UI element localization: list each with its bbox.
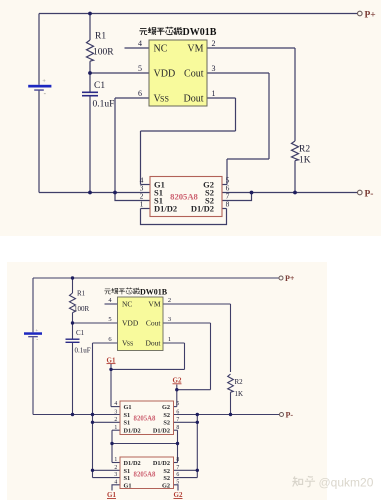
svg-text:SS: SS [127, 342, 134, 348]
svg-text:5: 5 [176, 401, 179, 407]
resistor R1 body B [70, 293, 76, 313]
svg-text:3: 3 [114, 409, 117, 415]
pin 5 G2 stub QA [174, 406, 177, 408]
svg-text:S1: S1 [124, 420, 131, 427]
svg-text:G2: G2 [162, 404, 170, 411]
svg-text:8: 8 [176, 425, 179, 431]
svg-text:0.1uF: 0.1uF [75, 347, 91, 355]
wire Dout down to G1 pin4 [140, 131, 142, 185]
svg-text:VDD: VDD [122, 319, 139, 328]
wire G2 net label drop [176, 385, 178, 407]
U2 pin names [154, 180, 214, 214]
svg-text:2: 2 [212, 39, 216, 48]
top schematic cream background [0, 0, 381, 236]
svg-text:2: 2 [114, 417, 117, 423]
wire R1 top lead [89, 14, 91, 41]
node R1/C1/VDD junction [88, 71, 92, 75]
pin 8 D1/D2 stub QB [174, 462, 178, 464]
wire C1 bottom lead B [72, 343, 74, 415]
svg-text:P+: P+ [365, 10, 376, 20]
svg-text:3: 3 [212, 64, 216, 73]
pin 5 G2 stub U2 [222, 184, 227, 186]
svg-text:G1: G1 [107, 491, 116, 499]
wire S2 riser B [196, 415, 198, 478]
node S2 riser junction [250, 191, 254, 195]
watermark 知乎 @qukm20 [292, 476, 315, 486]
wire R2 top lead B [230, 304, 232, 372]
svg-text:6: 6 [176, 409, 179, 415]
pin 6 Vss stub B [93, 342, 118, 344]
svg-text:4: 4 [138, 39, 142, 48]
svg-text:SS: SS [160, 95, 169, 104]
node QB pin2 branch [91, 469, 94, 472]
svg-text:D1/D2: D1/D2 [191, 204, 214, 214]
wire to second S1 pin 2 [115, 193, 150, 201]
U1 pin names [154, 44, 204, 105]
wire Dout pin1 B [163, 342, 185, 344]
wire R1/C1 junction to VDD pin5 [90, 72, 149, 74]
svg-text:R2: R2 [235, 378, 244, 386]
wire Cout down B [210, 323, 212, 390]
net label G1 upper underline [107, 363, 116, 365]
pin 7 S2 stub and riser [222, 193, 252, 201]
wire battery bottom lead [38, 91, 40, 193]
svg-text:D1/D2: D1/D2 [154, 204, 177, 214]
pin 1 D1/D2 stub U2 [141, 208, 151, 210]
svg-text:D1/D2: D1/D2 [124, 460, 141, 467]
wire R1 bottom lead [89, 61, 91, 73]
bottom schematic cream background [7, 262, 327, 500]
wire battery bottom lead B [32, 337, 34, 414]
pin 5 G2 stub QB [174, 485, 179, 491]
svg-text:G1: G1 [124, 404, 132, 411]
wire R2 bottom lead [294, 161, 296, 193]
pin 1 D1/D2 stub QA [112, 429, 120, 431]
svg-text:NC: NC [122, 300, 132, 309]
svg-text:-: - [36, 337, 38, 343]
junction dots bottom [71, 276, 232, 472]
svg-text:0.1uF: 0.1uF [93, 100, 115, 110]
port P- bottom [280, 413, 284, 417]
svg-text:4: 4 [114, 479, 117, 485]
pin 8 D1/D2 stub QA [174, 429, 178, 431]
QA pin numbers [114, 401, 179, 431]
svg-text:Cout: Cout [146, 319, 162, 328]
svg-text:D1/D2: D1/D2 [153, 460, 170, 467]
svg-text:S2: S2 [163, 468, 170, 475]
svg-text:+: + [42, 78, 46, 85]
svg-text:3: 3 [168, 316, 171, 323]
svg-text:8205A8: 8205A8 [134, 472, 157, 479]
svg-text:DW01B: DW01B [183, 27, 217, 38]
wire P+ rail bottom [33, 277, 279, 279]
svg-text:D1/D2: D1/D2 [124, 428, 141, 435]
wire P+ rail top [39, 13, 357, 15]
svg-text:3: 3 [114, 472, 117, 478]
port P+ top [358, 11, 363, 16]
wire Dout down B [184, 343, 186, 369]
label U1 title 无锡平芯微DW01B [139, 27, 182, 35]
wire battery- to S1 rail B [33, 414, 120, 416]
pin 4 G1 stub QA [111, 406, 120, 408]
svg-text:1: 1 [114, 457, 117, 463]
wire battery top lead [38, 14, 40, 85]
svg-text:S2: S2 [163, 412, 170, 419]
svg-text:Cout: Cout [184, 69, 204, 80]
svg-text:1: 1 [168, 336, 171, 343]
label U1 title B 无锡平芯微DW01B [104, 288, 139, 295]
svg-text:VM: VM [187, 44, 203, 55]
wire R1 top lead B [72, 278, 74, 293]
battery BT1 B [24, 328, 42, 343]
pin 8 D1/D2 stub U2 [222, 208, 227, 210]
net label G1 lower underline [107, 498, 116, 500]
svg-text:S2: S2 [163, 475, 170, 482]
wire Cout down [268, 73, 270, 159]
node D bridge left [110, 442, 113, 445]
QB pin names [124, 460, 171, 489]
wire Dout pin1 [207, 97, 236, 99]
pin 4 G1 stub QB [112, 485, 120, 491]
wire battery top lead B [32, 278, 34, 332]
pin 1 D1/D2 stub QB [112, 462, 120, 464]
svg-text:8: 8 [226, 200, 230, 209]
wire R1 bottom lead B [72, 313, 74, 323]
node R1/C1/VDD junction B [71, 321, 74, 324]
svg-text:G1: G1 [124, 482, 132, 489]
node D bridge right [176, 442, 179, 445]
svg-text:1: 1 [140, 200, 144, 209]
svg-text:P+: P+ [285, 274, 295, 283]
svg-text:S1: S1 [124, 468, 131, 475]
pin 7 S2 stub QA [174, 421, 198, 423]
U1 pin numbers [138, 39, 216, 98]
svg-text:1K: 1K [235, 390, 244, 398]
wire D1/D2 bottom loop [141, 209, 227, 225]
svg-text:5: 5 [138, 64, 142, 73]
resistor R1 label B [74, 290, 243, 399]
QB pin numbers [114, 457, 179, 485]
wire Dout across B [111, 368, 185, 370]
wire R2 bottom lead B [230, 392, 232, 414]
port P- top [358, 190, 363, 195]
node R2 bottom junction B [229, 413, 232, 416]
svg-text:S1: S1 [124, 475, 131, 482]
svg-text:S2: S2 [163, 420, 170, 427]
svg-text:1K: 1K [299, 156, 311, 166]
node C1 bottom junction B [71, 413, 74, 416]
node R1 top junction B [71, 276, 74, 279]
svg-text:P-: P- [286, 411, 294, 420]
resistor R1 label [93, 32, 311, 166]
svg-text:R1: R1 [77, 290, 86, 298]
node QB pin7 junction B [196, 469, 199, 472]
capacitor C1 [82, 92, 98, 97]
svg-text:G2: G2 [162, 482, 170, 489]
wire branch to QA pin2 [93, 421, 121, 423]
svg-text:+: + [35, 328, 38, 334]
node S2 riser top B [196, 413, 199, 416]
svg-text:VM: VM [148, 300, 160, 309]
node R2 bottom junction [293, 191, 297, 195]
wire Cout across B [177, 389, 211, 391]
wire Cout pin3 [207, 72, 269, 74]
junction dots top [88, 12, 297, 195]
wire S2 rail to P- [222, 192, 357, 194]
wire branch to QB pin3 [93, 477, 121, 479]
wire D left riser A-B [111, 430, 113, 462]
svg-text:8205A8: 8205A8 [170, 192, 198, 202]
node Vss rail junction [113, 191, 117, 195]
capacitor C1 B [66, 339, 80, 344]
U1 pin numbers B [108, 297, 171, 343]
net label G2 upper underline [173, 383, 182, 385]
svg-text:D1/D2: D1/D2 [153, 428, 170, 435]
svg-text:100R: 100R [74, 305, 90, 313]
svg-text:5: 5 [108, 316, 111, 323]
resistor R1 body [87, 40, 94, 61]
wire C1 bottom lead [89, 97, 91, 193]
IC U1 DW01B body B [118, 297, 164, 351]
IC U2 8205A8 body [150, 177, 222, 217]
wire C1 top lead B [72, 323, 74, 339]
svg-text:S1: S1 [124, 412, 131, 419]
net label G1 upper [107, 356, 183, 499]
node QA pin2 branch [91, 421, 94, 424]
wire battery- to S1 rail [39, 192, 150, 194]
svg-text:1: 1 [114, 425, 117, 431]
wire R2 top lead [294, 48, 296, 141]
svg-text:R2: R2 [299, 145, 310, 155]
svg-text:DW01B: DW01B [140, 287, 168, 296]
pin 4 NC stub [125, 47, 150, 49]
svg-text:5: 5 [176, 479, 179, 485]
node Vss rail junction B [91, 413, 94, 416]
wire branch to QB pin2 [93, 469, 121, 471]
svg-text:7: 7 [176, 465, 179, 471]
wire Vss down to S1 rail [114, 98, 116, 193]
wire D bridge [112, 443, 178, 445]
wire Cout down to G2 pin5 [226, 159, 228, 185]
svg-text:P-: P- [365, 189, 374, 199]
pin 4 G1 stub U2 [141, 184, 151, 186]
U1 pin names B [122, 300, 161, 348]
svg-text:R1: R1 [95, 32, 106, 42]
svg-text:NC: NC [154, 44, 168, 55]
node C1 bottom junction [88, 191, 92, 195]
node Dout/G1 junction B [109, 368, 112, 371]
IC QA 8205A8 body [120, 401, 174, 435]
svg-text:6: 6 [176, 472, 179, 478]
node R1 top junction [88, 12, 92, 16]
svg-text:7: 7 [176, 417, 179, 423]
svg-text:2: 2 [114, 465, 117, 471]
svg-text:C1: C1 [94, 81, 105, 91]
svg-text:2: 2 [168, 297, 171, 304]
IC QB 8205A8 body [120, 457, 174, 489]
svg-text:8205A8: 8205A8 [134, 416, 157, 423]
svg-text:Dout: Dout [146, 339, 162, 348]
pin 7 S2 stub QB [174, 469, 198, 471]
wire Dout down [235, 98, 237, 131]
pin 4 NC stub B [105, 303, 118, 305]
wire S2 rail to P- B [174, 414, 280, 416]
svg-text:C1: C1 [76, 329, 85, 337]
svg-text:4: 4 [114, 401, 117, 407]
wire VM pin2 B [163, 303, 231, 305]
svg-text:1: 1 [212, 89, 216, 98]
svg-text:G2: G2 [174, 491, 183, 499]
svg-text:G2: G2 [173, 377, 182, 385]
wire Cout across [227, 158, 269, 160]
svg-text:@qukm20: @qukm20 [319, 475, 374, 489]
battery BT1 [28, 78, 51, 98]
svg-text:6: 6 [138, 89, 142, 98]
wire junction to VDD B [73, 322, 118, 324]
U2 pin numbers [140, 176, 230, 209]
wire C1 top lead [89, 73, 91, 92]
port P+ bottom [279, 276, 283, 280]
wire Vss down B [92, 343, 94, 478]
svg-text:G1: G1 [107, 356, 116, 364]
wire Dout across [141, 130, 236, 132]
wire G1 net label drop [110, 364, 112, 407]
svg-text:VDD: VDD [154, 69, 176, 80]
svg-text:Dout: Dout [184, 94, 204, 105]
node Cout/G2 junction B [175, 388, 178, 391]
wire VM pin2 to R2 column [207, 47, 295, 49]
net label G2 lower underline [174, 498, 183, 500]
node QA pin7 junction B [196, 421, 199, 424]
QA pin names [124, 404, 171, 435]
svg-text:8: 8 [176, 457, 179, 463]
resistor R2 body [292, 141, 299, 161]
svg-text:100R: 100R [93, 48, 114, 58]
pin 6 Vss stub and wire left [115, 97, 149, 99]
resistor R2 body B [228, 374, 234, 392]
wire Cout pin3 B [163, 322, 211, 324]
wire D right riser A-B [177, 430, 179, 462]
pin 6 S2 stub QB [174, 477, 198, 479]
IC U1 DW01B body [149, 40, 207, 106]
